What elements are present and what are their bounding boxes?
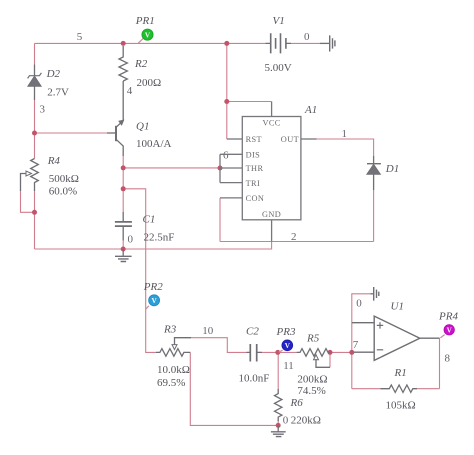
svg-text:U1: U1	[391, 301, 404, 313]
svg-text:0: 0	[283, 415, 289, 427]
svg-text:PR4: PR4	[438, 311, 458, 323]
pin stub CON	[220, 197, 242, 199]
svg-text:69.5%: 69.5%	[157, 377, 185, 389]
wire op-amp output net 8	[439, 338, 441, 389]
resistor R4 (potentiometer body)	[31, 159, 39, 192]
junction net 3 at D2/Q1 base	[32, 131, 37, 136]
pin stub TRI	[220, 182, 242, 184]
svg-text:OUT: OUT	[281, 135, 299, 144]
svg-text:500kΩ: 500kΩ	[49, 173, 79, 185]
svg-text:60.0%: 60.0%	[49, 186, 77, 198]
resistor R3 (potentiometer body)	[156, 349, 190, 357]
diode D1	[373, 156, 375, 190]
junction RST/VCC split	[224, 99, 229, 104]
op-amp timer A1 (555) box	[220, 102, 317, 242]
wire D1 cathode down	[373, 190, 375, 242]
potentiometer R3 wiper arm	[175, 338, 192, 345]
svg-text:V: V	[151, 297, 157, 305]
wire to VCC pin	[227, 101, 272, 103]
svg-text:7: 7	[353, 339, 359, 351]
plus symbol	[377, 322, 383, 328]
op-amp output pin	[420, 337, 440, 339]
svg-text:V: V	[447, 327, 453, 335]
svg-text:0: 0	[356, 298, 362, 310]
wire ground rail net 0 bottom	[35, 242, 272, 250]
wire R4 wiper return	[21, 191, 35, 212]
junction R4 wiper tie	[32, 210, 37, 215]
svg-text:V1: V1	[273, 15, 285, 27]
svg-text:74.5%: 74.5%	[297, 385, 325, 397]
wire net to PR2 and R3	[123, 189, 156, 353]
probe PR4	[438, 311, 458, 338]
junction node 7	[349, 350, 354, 355]
svg-text:VCC: VCC	[262, 119, 280, 128]
wire op-amp plus input to ground	[352, 294, 371, 323]
op-amp plus input pin	[352, 322, 374, 324]
svg-text:V: V	[145, 31, 151, 39]
capacitor C1	[122, 212, 124, 241]
resistor R5 (potentiometer body)	[297, 349, 330, 357]
resistor R6	[275, 389, 282, 421]
wire C1 top lead	[122, 189, 124, 212]
pin stub DIS	[220, 153, 242, 155]
svg-text:22.5nF: 22.5nF	[144, 232, 175, 244]
svg-text:GND: GND	[262, 210, 281, 219]
svg-text:2.7V: 2.7V	[47, 87, 69, 99]
ground below R6	[277, 425, 279, 431]
probe PR1	[135, 15, 155, 43]
svg-text:R5: R5	[306, 333, 320, 345]
svg-text:11: 11	[283, 360, 294, 372]
wire R5 wiper return to right terminal	[329, 352, 331, 367]
svg-text:200kΩ: 200kΩ	[297, 374, 327, 386]
svg-text:PR2: PR2	[143, 281, 163, 293]
op-amp minus input pin	[354, 351, 374, 353]
junction R5 right terminal	[328, 350, 333, 355]
wire battery to ground	[291, 42, 320, 44]
pin stub VCC	[271, 102, 273, 117]
wire Q1 collector to THR/TRI/DIS	[123, 156, 220, 189]
potentiometer R5 wiper arm	[316, 359, 330, 367]
svg-text:PR3: PR3	[276, 326, 296, 338]
svg-text:PR1: PR1	[135, 15, 155, 27]
wire R3 wiper to C2 (net 10)	[191, 338, 247, 353]
svg-text:D2: D2	[46, 68, 61, 80]
wire left rail upper (D2 top lead to net 3)	[34, 43, 36, 249]
svg-text:R1: R1	[394, 367, 407, 379]
svg-text:Q1: Q1	[136, 121, 149, 133]
junction node 11	[275, 350, 280, 355]
ground above op-amp	[370, 293, 373, 295]
junction top rail at R2	[121, 41, 126, 46]
wire net 2 GND pin to D1	[220, 241, 374, 243]
pin stub RST	[227, 138, 243, 140]
wire C2 right to node 11	[262, 351, 297, 353]
svg-text:V: V	[285, 342, 291, 350]
svg-text:D1: D1	[385, 163, 399, 175]
wire OUT net 1	[317, 139, 374, 156]
svg-text:220kΩ: 220kΩ	[291, 415, 321, 427]
ground right of V1	[320, 42, 330, 44]
pin stub GND	[271, 220, 273, 242]
svg-text:C2: C2	[246, 326, 259, 338]
svg-text:1: 1	[342, 128, 348, 140]
wire node 11 down to R6	[277, 352, 279, 388]
svg-text:R6: R6	[290, 397, 304, 409]
svg-text:10: 10	[202, 325, 214, 337]
wire tie DIS-THR-TRI	[219, 154, 221, 182]
pin stub THR	[220, 167, 242, 169]
svg-text:TRI: TRI	[246, 179, 261, 188]
svg-text:200Ω: 200Ω	[137, 77, 162, 89]
pin stub OUT	[301, 138, 317, 140]
zener diode D2	[34, 65, 36, 101]
capacitor C2	[247, 351, 263, 353]
svg-text:100A/A: 100A/A	[136, 138, 172, 150]
svg-text:R4: R4	[47, 155, 61, 167]
svg-text:R3: R3	[163, 324, 177, 336]
wire CON to net 2	[219, 198, 221, 242]
wire R5 to op-amp inverting node 7	[330, 351, 352, 353]
svg-text:5.00V: 5.00V	[265, 62, 292, 74]
probe PR3	[276, 326, 296, 352]
svg-text:10.0kΩ: 10.0kΩ	[157, 364, 190, 376]
transistor Q1	[117, 81, 124, 156]
svg-text:105kΩ: 105kΩ	[386, 400, 416, 412]
svg-text:R2: R2	[134, 58, 148, 70]
svg-text:10.0nF: 10.0nF	[239, 373, 270, 385]
junction R6 ground node	[276, 423, 281, 428]
svg-text:2: 2	[291, 231, 297, 243]
svg-text:RST: RST	[246, 135, 262, 144]
svg-text:CON: CON	[246, 194, 265, 203]
ground below C1	[122, 249, 124, 256]
wire R3 right terminal down to ground node	[190, 352, 278, 425]
svg-text:A1: A1	[304, 104, 317, 116]
svg-text:C1: C1	[143, 214, 156, 226]
junction THR node	[218, 166, 223, 171]
svg-text:0: 0	[304, 31, 310, 43]
wire base of Q1 net 3	[35, 132, 108, 134]
svg-text:4: 4	[127, 85, 133, 97]
svg-text:THR: THR	[246, 164, 264, 173]
junction Q1 collector node	[121, 165, 126, 170]
minus symbol	[377, 349, 383, 351]
op-amp U1 triangle	[374, 316, 420, 360]
svg-text:6: 6	[223, 150, 229, 162]
wire R6 bottom lead to ground node	[277, 421, 279, 426]
potentiometer R4 wiper arm	[21, 174, 27, 192]
probe PR2	[143, 281, 163, 309]
junction C1 ground rail	[121, 247, 126, 252]
svg-text:5: 5	[77, 31, 83, 43]
junction top rail at RST drop	[224, 41, 229, 46]
svg-text:3: 3	[40, 104, 46, 116]
wire node 7 vertical	[351, 323, 353, 389]
wire feedback bottom R1	[352, 388, 440, 390]
wire top rail net 5	[35, 42, 266, 44]
resistor R1	[380, 385, 417, 392]
svg-text:0: 0	[128, 234, 134, 246]
svg-text:8: 8	[445, 353, 451, 365]
wire RST/VCC drop from rail	[226, 43, 228, 139]
junction C1 branch	[121, 186, 126, 191]
resistor R2	[119, 46, 127, 81]
svg-text:DIS: DIS	[246, 150, 261, 159]
battery V1	[265, 42, 291, 44]
wire C1 bottom to ground rail	[122, 241, 124, 250]
